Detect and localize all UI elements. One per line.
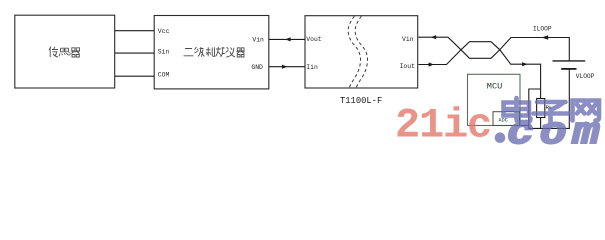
block sensor 传感器 [15, 15, 115, 88]
watermark glyph 子 [534, 102, 569, 127]
block ADC inside MCU [493, 112, 520, 126]
twisted pair wire B (Iout, lower-left to upper-right) [418, 42, 540, 89]
svg-text:Vcc: Vcc [158, 28, 170, 35]
wire GND-Iin [269, 66, 305, 68]
isolation dashed curve right [355, 16, 367, 88]
svg-text:GND: GND [251, 64, 263, 71]
battery top plate [553, 60, 586, 62]
arrow on Iout wire (points right) [429, 62, 434, 66]
battery bottom plate [561, 68, 576, 70]
block T1100L-F [305, 16, 418, 88]
watermark dot of .com [495, 132, 506, 143]
svg-text:Iin: Iin [306, 64, 318, 71]
wire jog from loop to ADC branch [529, 89, 541, 126]
svg-text:Iout: Iout [400, 63, 416, 70]
svg-text:Vout: Vout [306, 36, 322, 43]
text 二线制转换器 (drawn strokes) [184, 47, 245, 57]
svg-text:21ic: 21ic [395, 102, 491, 148]
arrow on Vin-Vout (points left) [285, 37, 290, 41]
block two-wire converter 二线制转换器 [154, 16, 269, 89]
isolation dashed curve left [348, 16, 360, 88]
wire battery negative down [568, 70, 570, 129]
wire sensor-Vcc [115, 30, 155, 32]
watermark glyph 电 [504, 98, 531, 122]
arrow ILOOP (points left) [542, 35, 549, 40]
svg-text:Vin: Vin [402, 36, 414, 43]
svg-text:MCU: MCU [487, 81, 502, 91]
watermark 21ic [395, 102, 491, 150]
arrow on Vin wire (points left) [431, 35, 436, 39]
wire RL bottom to bus [540, 118, 542, 129]
watermark group (21ic.com dianziwang) [395, 98, 605, 155]
resistor RL body [537, 99, 545, 118]
wire loop down to RL [540, 89, 542, 99]
block MCU [468, 74, 521, 125]
text 传感器 (drawn strokes) [49, 47, 80, 58]
svg-text:ILOOP: ILOOP [533, 25, 552, 32]
bottom bus wire [520, 126, 570, 129]
arrow on GND-Iin (points right) [282, 65, 287, 69]
svg-text:T1100L-F: T1100L-F [340, 96, 382, 106]
svg-text:COM: COM [158, 71, 170, 78]
wire Vin-Vout [269, 38, 305, 40]
watermark glyph 网 [573, 101, 600, 121]
arrow loop lower (points right) [522, 62, 527, 66]
svg-text:VLOOP: VLOOP [576, 73, 595, 80]
wire sensor-Sin [115, 52, 155, 54]
svg-text:Sin: Sin [158, 48, 170, 55]
wire sensor-COM [115, 75, 155, 77]
twisted pair wire A (Vin out, upper-left to lower-right) [418, 37, 569, 60]
svg-text:Vin: Vin [252, 37, 264, 44]
